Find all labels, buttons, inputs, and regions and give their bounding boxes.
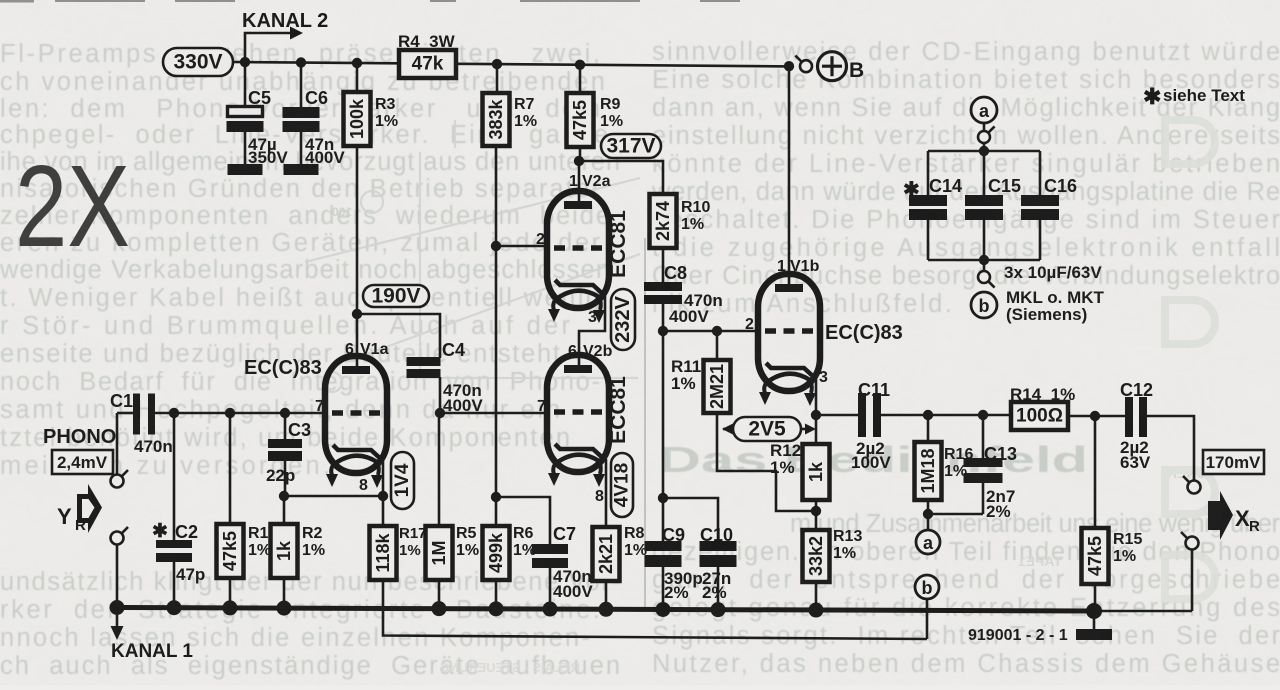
ground symbol at R15 [1093,611,1096,630]
wire C4 node down to R5 [438,413,441,526]
wire cap bank bottom rail [928,259,1040,262]
junction ground rail x=606 [599,602,614,617]
junction ground rail x=439 [432,601,447,616]
wire V1a cathode node line [284,495,383,498]
wire C8 node down to C9 [662,331,665,541]
junction ground rail x=117 [110,600,125,615]
wire R3 to V1a anode and C4 [357,314,440,358]
junction top rail at C6 [296,57,306,67]
capacitor C3 22p [284,413,287,439]
junction ground rail x=230 [223,600,238,615]
wire R11 bottom jog to R12/R13 node [717,413,816,511]
resistor R8 2k21 1% [593,527,620,581]
capacitor C8 470n/400V [662,248,665,282]
junction C11 / R16 [923,410,933,420]
junction 190V node [352,309,362,319]
wire V2b grid line [440,412,548,415]
capacitor C7 470n/400V [532,544,568,554]
wire V2a anode pin 1 [578,161,581,204]
capacitor C4 470n/400V [407,357,441,366]
node KANAL 1 arrow [116,609,119,626]
ground below C6 [284,164,319,175]
junction R16 bottom / C13 return [923,509,933,519]
junction top rail at +B [784,61,794,71]
junction ground rail x=496 [489,601,504,616]
terminal b (top right) [971,292,997,318]
capacitor C2 47p [173,413,176,540]
input terminal lower [111,532,124,545]
resistor R9 47k5 1% [579,63,582,93]
node Y_R input arrow [77,484,102,533]
wire V1a anode pin 6 [356,314,359,369]
resistor R13 33k2 1% [815,511,818,530]
output terminal lower [1186,537,1199,550]
resistor R17 118k 1% [382,496,385,526]
resistor R7 383k 1% [496,63,499,93]
junction ground rail x=663 [656,602,671,617]
node 232V label (vertical) [611,289,635,350]
output terminal upper [1188,481,1201,494]
junction R14 / R15 [1090,411,1100,421]
wire C12 to output terminal [1147,416,1194,480]
junction C8 / V1b grid [658,326,668,336]
junction top rail at C5 [240,57,250,67]
junction R6/C7 node [491,492,501,502]
wire V1a grid line [155,412,325,415]
capacitor C1 470n input [117,412,133,415]
junction grid line / C2 [169,408,179,418]
wire R14 to C12 [1068,415,1125,418]
resistor R10 2k74 1% [650,194,677,248]
terminal b (to cap bank) [915,575,939,599]
paper grain overlay [0,0,1,1]
junction top rail at R7 [492,59,502,69]
wire cap bank top rail [928,150,1040,153]
wire V1b grid line [663,330,758,333]
wire C9 node to C10 [663,498,718,541]
node 317V label [601,134,661,158]
resistor R12 1k 1% [815,415,818,444]
input terminal upper [116,413,119,474]
node +B supply terminal [800,60,812,72]
resistor R11 2M21 1% [716,331,719,360]
junction grid line / C3 [280,408,290,418]
resistor R5 1M 1% [426,526,453,580]
wire V2b cathode pin 8 to R8 [605,459,608,527]
wire R17 bottom to signal-ground return [383,580,927,639]
wire top supply rail [233,62,399,63]
junction V1b cathode node [811,410,821,420]
capacitor C5 47u/350V electrolytic [244,63,247,106]
junction ground rail x=718 [711,602,726,617]
junction ground rail x=550 [543,602,558,617]
node 4V18 label (vertical) [611,453,633,517]
node 1V4 label (vertical) [391,452,414,509]
capacitor C12 2u2/63V output [1125,397,1133,437]
wire b to signal-ground return [926,599,929,639]
resistor R6 499k 1% [483,526,510,580]
capacitor C6 47n/400V [300,63,303,107]
junction ground rail / R15 / ground [1086,603,1102,619]
junction grid line / R1 [225,408,235,418]
junction V1b grid / R11 [712,326,722,336]
junction R12/R13 feedback node [811,506,821,516]
wire V1b cathode pin 3 down [815,378,818,415]
junction C4 / V2b grid / R5 [435,408,445,418]
wire V2a cathode to V2b anode [579,296,605,367]
junction V2a grid / R7 [491,241,501,251]
wire KANAL 2 arrow stub [245,33,290,63]
resistor R2 1k 1% [283,496,286,524]
resistor R1 47k5 1% [229,413,232,524]
capacitor C16 [1039,151,1042,195]
node 2V5 label with measure arrows [723,428,735,431]
wire V1b anode pin 1 to +B [788,63,791,287]
junction top rail at R3 [352,58,362,68]
capacitor C11 2u2/100V [816,414,858,417]
triode V2b ECC81 [547,355,609,472]
capacitor C10 27n 2% [700,541,737,551]
wire V2a grid line [496,245,548,248]
wire R6 node to C7 [496,497,550,544]
junction V1a cathode / R17 [378,491,388,501]
junction C9 node [658,493,668,503]
junction ground rail x=816 [809,603,824,618]
junction V2a anode node [574,156,584,166]
wire R16/C13 node [928,513,983,516]
label 2,4mV box [52,450,113,474]
terminal a (to cap bank) [927,514,930,530]
junction C13 top [978,410,988,420]
wire V1a cathode pin 8 down [382,460,385,496]
label 170mV box [1203,450,1264,474]
capacitor C9 390p 2% [645,541,682,551]
node 330V supply label [163,48,233,76]
node X_R output arrow [1208,491,1233,540]
junction bank top [979,146,989,156]
junction bank bottom [979,255,989,265]
junction ground rail x=284 [277,601,292,616]
triode V2a ECC81 [547,191,609,308]
resistor R3 100k 1% [356,63,359,92]
terminal a (top right) [971,97,997,123]
resistor R15 47k5 1% [1094,416,1097,528]
capacitor C15 [983,151,986,195]
junction C3/R2 node [279,491,289,501]
junction top rail at R9 [575,60,585,70]
ground rail KANAL 1 [117,608,1094,612]
wire 317V node to R10 [580,161,663,194]
capacitor C14 [927,151,930,195]
junction ground rail x=174 [167,600,182,615]
ground below C5 [228,164,263,175]
triode V1a EC(C)83 [325,356,387,473]
